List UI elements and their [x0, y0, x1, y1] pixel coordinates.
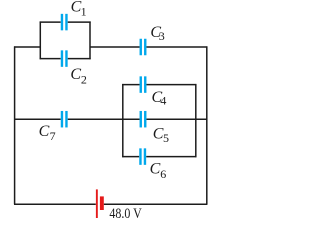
- svg-text:1: 1: [81, 4, 87, 18]
- svg-text:48.0 V: 48.0 V: [109, 206, 142, 222]
- svg-text:4: 4: [160, 93, 166, 107]
- svg-text:C: C: [39, 123, 50, 140]
- svg-text:6: 6: [160, 167, 166, 181]
- svg-text:3: 3: [159, 29, 165, 43]
- svg-text:2: 2: [81, 73, 87, 87]
- svg-text:7: 7: [50, 129, 56, 143]
- svg-text:5: 5: [163, 131, 169, 145]
- svg-text:C: C: [70, 66, 81, 83]
- svg-text:C: C: [150, 160, 161, 177]
